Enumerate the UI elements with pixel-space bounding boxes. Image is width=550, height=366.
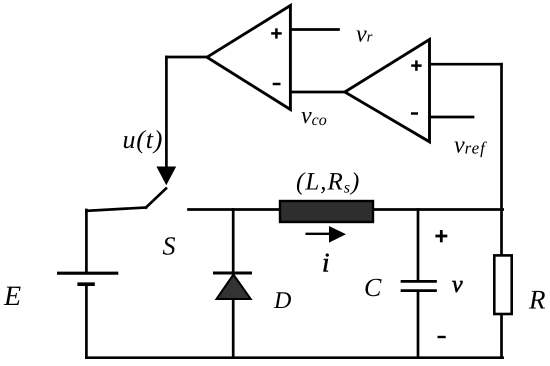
svg-text:R: R: [528, 285, 546, 315]
svg-text:v: v: [452, 272, 463, 298]
svg-text:D: D: [273, 288, 291, 314]
svg-text:(L,Rs): (L,Rs): [296, 169, 360, 197]
svg-text:u(t): u(t): [123, 125, 164, 154]
svg-text:E: E: [3, 281, 21, 312]
svg-text:i: i: [322, 248, 330, 278]
svg-text:C: C: [364, 273, 382, 302]
svg-text:S: S: [163, 232, 176, 261]
